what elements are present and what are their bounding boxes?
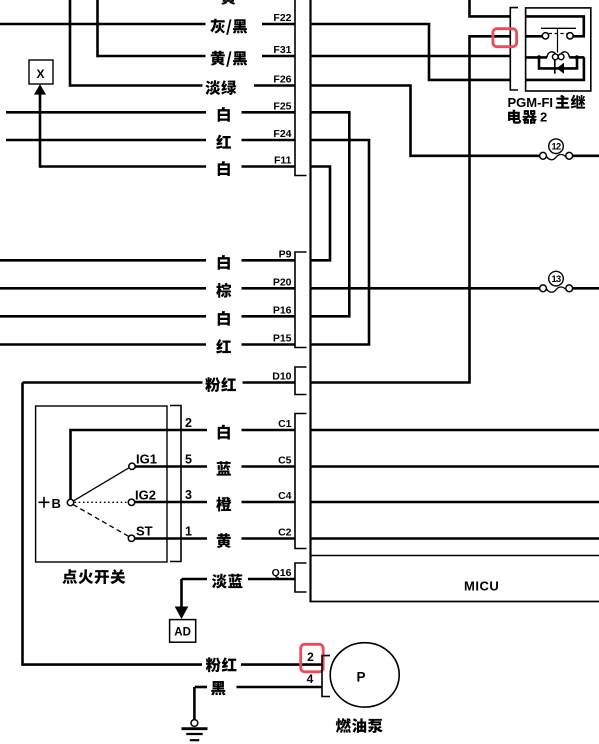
svg-text:AD: AD: [174, 626, 191, 638]
ignition switch box: [36, 406, 167, 562]
wire C4 into fuse box: [311, 501, 599, 504]
wire F24 terminal segment: [242, 139, 295, 142]
wire down to ground: [193, 687, 196, 720]
svg-text:5: 5: [185, 453, 192, 467]
svg-text:C2: C2: [278, 527, 292, 539]
svg-text:F22: F22: [273, 12, 291, 24]
svg-text:2: 2: [540, 110, 547, 125]
wire C2 terminal segment: [242, 537, 295, 540]
svg-text:P16: P16: [273, 305, 292, 317]
wire +B to terminal 2: [71, 430, 168, 500]
wire link F24 to P15: [311, 140, 370, 345]
svg-text:F31: F31: [273, 44, 291, 56]
wire P20 left segment (棕): [0, 287, 206, 290]
wire C5 terminal segment: [242, 465, 295, 468]
red highlight box (pump terminal 2): [301, 644, 324, 672]
ground: [191, 720, 198, 727]
svg-text:Q16: Q16: [272, 567, 292, 579]
wire Q16 left segment (淡蓝): [182, 578, 208, 581]
wire F25 terminal segment: [242, 111, 295, 114]
svg-text:2: 2: [185, 416, 192, 430]
label wire colour 白 for P9: [218, 255, 230, 270]
relay K1 PGM-FI main relay 2 body: [526, 8, 591, 91]
svg-text:ST: ST: [136, 524, 153, 539]
wire C5 left segment (蓝): [167, 465, 207, 468]
arrow to X: [39, 93, 42, 168]
connector AD box: [170, 620, 196, 643]
label black: [211, 681, 225, 695]
svg-text:IG1: IG1: [136, 452, 157, 467]
wire F26 left segment (淡绿): [70, 84, 203, 87]
junction dot left: [537, 55, 541, 59]
wire F11 terminal segment: [242, 165, 295, 168]
MICU box: [310, 555, 599, 557]
label fuel pump: [336, 718, 383, 733]
wire C5 into fuse box: [311, 465, 599, 468]
connector bracket Q group: [295, 563, 307, 592]
connector 13: [540, 285, 547, 292]
wire C4 left segment (橙): [167, 501, 207, 504]
svg-text:F26: F26: [273, 74, 291, 86]
wire D10 terminal segment: [243, 381, 295, 384]
label wire colour 黄 for C2: [217, 533, 231, 548]
label +B: [39, 501, 50, 503]
svg-text:1: 1: [185, 525, 192, 539]
wire connector 12 to right edge: [573, 155, 599, 158]
wire pump ground (black): [195, 686, 207, 689]
wire C1 into fuse box: [311, 429, 599, 432]
label ignition switch: [62, 569, 125, 584]
wire link F25 to P16: [311, 112, 350, 316]
label wire colour 棕 for P20: [216, 283, 231, 298]
svg-text:F25: F25: [273, 101, 291, 113]
wire C1 terminal segment: [242, 429, 295, 432]
wire F26 terminal segment: [254, 84, 295, 87]
svg-text:3: 3: [185, 488, 192, 502]
+B contact: [67, 499, 73, 505]
wire relay pin 1 rail to contact: [526, 16, 584, 36]
wire F11 left segment (白): [40, 165, 206, 168]
svg-text:13: 13: [552, 274, 561, 284]
IG2 contact and wire: [128, 499, 134, 505]
wire P20 terminal segment: [242, 287, 295, 290]
wire P20 to connector 13: [311, 287, 540, 290]
svg-text:X: X: [36, 67, 44, 81]
wire F22 left segment (灰/黑): [0, 23, 206, 26]
svg-text:2: 2: [307, 650, 314, 664]
relay coil L1: [547, 52, 569, 60]
svg-text:IG2: IG2: [135, 488, 156, 503]
connector bracket ignition: [170, 406, 181, 562]
junction dot right: [575, 55, 579, 59]
svg-text:B: B: [52, 496, 61, 511]
label pink (fuel pump feed): [206, 657, 237, 672]
relay contact left (pin 2): [526, 33, 549, 39]
label wire colour 红 for P15: [216, 339, 231, 353]
label wire colour 白 for C1: [218, 425, 230, 440]
label wire colour 粉红 for D10: [205, 377, 236, 392]
label wire colour 灰/黑 for F22: [210, 19, 247, 35]
relay armature: [541, 28, 576, 52]
svg-text:MICU: MICU: [464, 578, 499, 593]
connector bracket relay: [510, 8, 518, 90]
label wire colour 淡蓝 for Q16: [212, 574, 243, 589]
svg-text:C1: C1: [278, 418, 292, 430]
svg-text:PGM-FI: PGM-FI: [508, 95, 554, 110]
svg-text:P9: P9: [279, 249, 292, 261]
wire C1 left segment (白): [167, 429, 207, 432]
relay contact right: [567, 33, 585, 39]
wire D10 to fuel pump (pink): [23, 383, 203, 665]
wire F22 terminal segment: [262, 23, 295, 26]
connector bracket F group: [295, 0, 307, 176]
wire Q16 terminal segment: [248, 578, 295, 581]
wire D10 to relay contact (pin2): [311, 36, 511, 382]
wire F25 left segment (白): [6, 111, 206, 114]
dashed link +B to ST: [73, 505, 129, 537]
connector bracket D group: [295, 367, 307, 395]
connector X box: [29, 60, 53, 84]
wire P16 left segment (白): [0, 315, 206, 318]
label wire colour 白 for F11: [218, 161, 230, 176]
label wire colour 红 for F24: [216, 135, 231, 149]
connector 12: [540, 152, 547, 159]
fuel pump motor: [330, 643, 399, 707]
wire P15 terminal segment: [242, 343, 295, 346]
label wire colour 黄/黑 for F31: [211, 51, 248, 67]
svg-text:12: 12: [552, 142, 561, 152]
wire C4 terminal segment: [242, 501, 295, 504]
label wire colour 淡绿 for F26: [205, 80, 236, 95]
wire P9 left segment (白): [0, 259, 206, 262]
wire relay coil rail right: [569, 56, 584, 59]
label yellow (cut off at top): [221, 0, 235, 5]
wire F24 left segment (红): [6, 139, 206, 142]
wire black to pump terminal 4: [237, 686, 323, 689]
wire F26 feed from top: [69, 0, 72, 87]
wire connector 13 to right edge: [573, 287, 599, 290]
wire C2 into fuse box: [311, 537, 599, 540]
connector bracket fuel pump: [322, 656, 330, 697]
svg-text:C5: C5: [278, 455, 292, 467]
wire relay pin 4 bottom rail: [526, 57, 584, 80]
svg-text:C4: C4: [278, 490, 292, 502]
wire pink to pump terminal 2: [241, 663, 322, 666]
svg-text:D10: D10: [272, 371, 291, 383]
wire P9 terminal segment: [242, 259, 295, 262]
wire F26 to connector 12: [311, 86, 540, 156]
wire C2 left segment (黄): [167, 537, 207, 540]
wire Q16 down to AD: [180, 579, 183, 607]
wire link F11 to P9: [311, 167, 331, 261]
wire relay pin1 feed from top: [470, 0, 511, 16]
wire F22 to relay coil (pin4): [311, 24, 511, 80]
connector bracket C group: [295, 414, 307, 549]
IG1 contact and wire: [129, 463, 135, 469]
wire relay coil rail left (pin 3): [526, 56, 547, 59]
red highlight box (relay pin 2): [493, 29, 517, 47]
label wire colour 白 for F25: [218, 107, 230, 122]
wire D10 left segment (粉红): [23, 381, 203, 384]
wire F31 to relay coil (pin3): [311, 55, 511, 58]
wire F31 feed from top: [96, 0, 99, 57]
svg-text:P15: P15: [273, 333, 292, 345]
label wire colour 蓝 for C5: [217, 461, 231, 475]
wire P15 left segment (红): [0, 343, 206, 346]
wire F31 left segment (黄/黑): [98, 55, 206, 58]
svg-text:P20: P20: [273, 277, 292, 289]
ST contact and wire: [128, 535, 134, 541]
fuse box left edge: [309, 0, 311, 602]
dotted link +B to IG2: [75, 501, 129, 503]
svg-text:P: P: [356, 670, 365, 685]
svg-text:F24: F24: [273, 128, 291, 140]
label wire colour 橙 for C4: [216, 497, 231, 512]
switch blade +B to IG1: [73, 468, 129, 501]
label wire colour 白 for P16: [218, 311, 230, 326]
connector bracket P group: [295, 252, 307, 348]
svg-text:F11: F11: [274, 155, 292, 167]
svg-text:4: 4: [307, 672, 314, 686]
wire F31 terminal segment: [262, 55, 295, 58]
diode D1 across coil: [539, 57, 577, 73]
wire P16 terminal segment: [242, 315, 295, 318]
